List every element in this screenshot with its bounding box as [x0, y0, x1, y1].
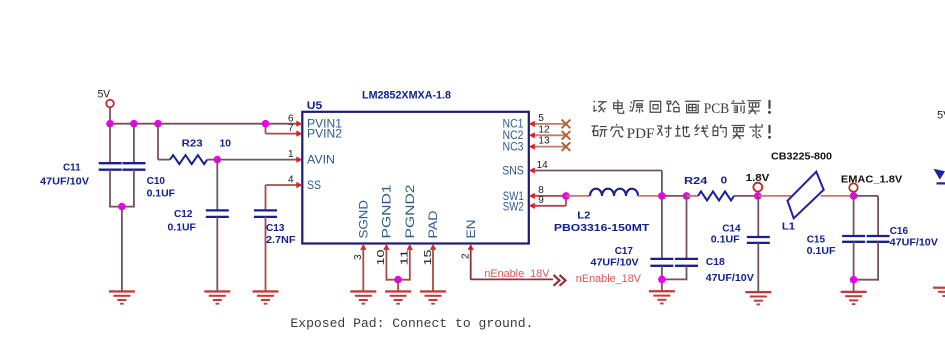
capacitor C11: [99, 163, 122, 170]
svg-text:NC1: NC1: [503, 119, 524, 131]
svg-text:14: 14: [537, 160, 549, 171]
hanzi 回: [650, 101, 661, 112]
pin arrow pin 4: [296, 182, 302, 188]
wire PGND2 drop: [409, 247, 411, 281]
wire C15 top lead: [853, 196, 855, 236]
junction C18/R24 node: [683, 192, 691, 200]
svg-text:SS: SS: [307, 180, 321, 192]
pin arrow pin 7: [296, 131, 302, 137]
svg-text:47UF/10V: 47UF/10V: [890, 236, 938, 248]
wire C13 bottom lead: [265, 217, 267, 291]
wire C18 top lead: [686, 196, 688, 258]
junction R23 / C12 / AVIN node: [214, 156, 222, 164]
wire C16 drop: [877, 196, 879, 236]
hanzi 源: [630, 101, 644, 113]
no-connect X NC2: [562, 131, 571, 140]
pin arrow pin 1: [296, 157, 302, 163]
svg-text:PGND1: PGND1: [382, 185, 394, 239]
wire C17 bottom lead: [661, 266, 663, 291]
pin arrow pin 10 PGND1: [383, 244, 389, 250]
wire EN drop: [470, 247, 472, 280]
svg-text:13: 13: [538, 136, 550, 147]
pin arrow pin 5 NC1: [529, 121, 535, 127]
wire SW2 stub: [531, 205, 566, 207]
pin arrow pin 9 SW2: [529, 203, 535, 209]
fullwidth exclamation line 1: [768, 100, 771, 114]
wire C14 bottom lead: [757, 243, 759, 292]
wire 1.8V node to L1: [758, 195, 792, 197]
ground G4 (SGND): [350, 290, 376, 304]
svg-text:EN: EN: [466, 220, 478, 239]
wire C11/C10 bottom rail: [109, 206, 135, 208]
wire SW node to L2: [566, 195, 590, 197]
svg-text:5V: 5V: [98, 88, 111, 100]
wire PGND1 drop: [385, 247, 387, 281]
svg-text:R24: R24: [684, 175, 707, 187]
svg-text:nEnable_18V: nEnable_18V: [484, 268, 550, 280]
svg-text:9: 9: [538, 195, 544, 206]
svg-text:C17: C17: [615, 245, 633, 257]
svg-text:PBO3316-150MT: PBO3316-150MT: [554, 222, 650, 234]
wire C14 top lead: [757, 196, 759, 237]
hanzi 前: [731, 100, 745, 113]
svg-text:5: 5: [538, 113, 544, 124]
svg-text:1: 1: [288, 149, 294, 160]
wire PAD to ground: [432, 247, 434, 291]
svg-text:0.1UF: 0.1UF: [807, 245, 836, 257]
wire SS wire: [266, 184, 298, 186]
wire SNS node to C18 node: [661, 195, 687, 197]
svg-text:LM2852XMXA-1.8: LM2852XMXA-1.8: [362, 89, 451, 101]
svg-text:C13: C13: [266, 222, 285, 234]
junction C11/C10 rail to ground: [118, 203, 126, 211]
svg-text:C11: C11: [63, 162, 81, 174]
wire SNS wire vertical: [661, 171, 663, 197]
svg-text:R23: R23: [182, 137, 203, 149]
wire C11 bottom lead: [109, 170, 111, 208]
capacitor C16: [867, 236, 890, 242]
svg-text:NC3: NC3: [503, 141, 524, 153]
power terminal EMAC_1.8V: [849, 183, 857, 191]
capacitor C10: [123, 163, 146, 170]
wire L2 to SNS node: [638, 195, 662, 197]
pin arrow pin 13 NC3: [529, 144, 535, 150]
junction 5V rail / C11: [106, 120, 114, 128]
svg-text:0.1UF: 0.1UF: [711, 234, 740, 246]
wire NC2 stub: [531, 134, 566, 136]
pin arrow pin 8 SW1: [529, 193, 535, 199]
ground G3 (C13): [253, 290, 279, 304]
partial off-page symbol right edge: [934, 169, 945, 185]
svg-text:Exposed Pad: Connect to ground: Exposed Pad: Connect to ground.: [290, 316, 533, 331]
hanzi 电: [614, 100, 624, 114]
wire SS riser from C13: [265, 185, 267, 210]
wire R24 to 1.8V node: [734, 195, 758, 197]
junction C15/C16 rail to ground: [850, 276, 858, 284]
wire C11 top lead: [109, 124, 111, 163]
svg-text:47UF/10V: 47UF/10V: [706, 272, 754, 284]
inductor L2: [590, 189, 638, 196]
capacitor C13: [254, 210, 277, 217]
hanzi 画: [685, 101, 700, 113]
wire R23 left lead: [158, 159, 170, 161]
off-page chevrons nEnable_18V: [554, 275, 566, 286]
svg-text:PVIN2: PVIN2: [307, 129, 342, 141]
svg-text:0.1UF: 0.1UF: [147, 187, 176, 199]
svg-text:L2: L2: [577, 210, 590, 222]
svg-text:C10: C10: [147, 175, 166, 187]
power terminal 5V: [106, 100, 114, 108]
svg-text:PCB: PCB: [704, 101, 729, 117]
wire PGND rail: [386, 279, 411, 281]
hanzi 对: [657, 125, 672, 137]
svg-text:PAD: PAD: [428, 211, 440, 239]
svg-text:0.1UF: 0.1UF: [168, 221, 197, 233]
capacitor C12: [206, 210, 229, 217]
ground G9 (C15/C16): [841, 291, 867, 305]
wire C16 bottom lead: [877, 242, 879, 281]
svg-text:PDF: PDF: [627, 126, 655, 142]
wire PGND ground stem: [397, 280, 399, 291]
pin arrow pin 11 PGND2: [407, 244, 413, 250]
svg-text:5V: 5V: [937, 110, 945, 122]
svg-text:7: 7: [288, 123, 294, 134]
junction SNS/C17 node: [658, 192, 666, 200]
svg-text:47UF/10V: 47UF/10V: [591, 257, 639, 269]
hanzi 该: [594, 101, 607, 113]
wire EN to nEnable_18V: [471, 278, 553, 280]
svg-text:12: 12: [538, 124, 550, 135]
capacitor C18: [675, 259, 698, 266]
wire C15 bottom lead: [853, 242, 855, 291]
wire PVIN2 branch horizontal: [266, 133, 298, 135]
capacitor C14: [747, 237, 770, 243]
wire PVIN2 branch vertical: [265, 124, 267, 134]
pin arrow pin 12 NC2: [529, 132, 535, 138]
capacitor C15: [842, 236, 865, 242]
wire SNS wire horizontal: [531, 170, 662, 172]
svg-text:AVIN: AVIN: [307, 154, 335, 166]
ground G8 (C14): [745, 291, 771, 305]
partial ground right edge: [933, 287, 945, 297]
resistor R24: [698, 191, 734, 200]
wire NC3 stub: [531, 146, 566, 148]
svg-text:CB3225-800: CB3225-800: [771, 150, 832, 162]
svg-text:SNS: SNS: [502, 166, 524, 178]
wire R23 right lead: [207, 159, 217, 161]
wire C10 bottom lead: [133, 170, 135, 208]
junction SW1/SW2 node: [562, 192, 570, 200]
pin arrow pin 3 SGND: [360, 244, 366, 250]
wire 5V terminal drop: [109, 107, 111, 124]
wire SW1 stub: [531, 195, 566, 197]
svg-text:PGND2: PGND2: [405, 185, 417, 239]
svg-text:SW2: SW2: [503, 202, 524, 214]
no-connect X NC1: [562, 120, 571, 129]
svg-text:L1: L1: [782, 220, 795, 232]
junction 1.8V node: [754, 192, 762, 200]
ferrite bead L1: [788, 172, 824, 219]
wire C15/C16 bottom rail: [853, 279, 879, 281]
pin arrow pin 15 PAD: [430, 244, 436, 250]
junction PGND rail to ground: [394, 276, 402, 284]
capacitor C17: [650, 259, 673, 266]
IC U5 LM2852XMXA-1.8 body: [302, 112, 529, 244]
pin arrow pin 2 EN: [468, 244, 474, 250]
junction 5V rail / R23: [154, 120, 162, 128]
ground G6 (PAD): [420, 290, 446, 304]
no-connect X NC3: [562, 142, 571, 151]
svg-text:10: 10: [220, 137, 232, 149]
junction 5V rail / C10: [130, 120, 138, 128]
svg-text:C18: C18: [706, 256, 725, 268]
svg-text:0: 0: [721, 175, 728, 187]
pin arrow pin 14 SNS: [529, 167, 535, 173]
wire ground stem C11/C10: [121, 207, 123, 291]
pin arrow pin 6: [296, 121, 302, 127]
svg-text:4: 4: [288, 175, 294, 186]
wire C12 top lead: [216, 160, 218, 211]
hanzi 求: [749, 124, 763, 138]
wire AVIN wire: [217, 159, 297, 161]
wire R23 drop from 5V rail: [157, 124, 159, 160]
svg-text:SGND: SGND: [359, 200, 371, 239]
resistor R23: [170, 155, 207, 164]
junction EMAC_1.8V node: [850, 192, 858, 200]
svg-text:nEnable_18V: nEnable_18V: [576, 273, 642, 285]
ground G7 (C17/C18): [649, 290, 675, 304]
hanzi 地: [675, 125, 689, 137]
wire C10 top lead: [133, 124, 135, 163]
hanzi 的: [713, 124, 726, 137]
wire C18 bottom lead: [686, 266, 688, 280]
hanzi 路: [667, 101, 680, 112]
hanzi 研: [592, 126, 608, 137]
ground G5 (PGND1/PGND2): [385, 290, 411, 304]
wire C17 top lead: [661, 196, 663, 258]
hanzi 线: [695, 124, 709, 136]
svg-text:2.7NF: 2.7NF: [266, 234, 296, 246]
ground G1 (C11/C10): [109, 290, 135, 304]
svg-text:NC2: NC2: [503, 130, 524, 142]
hanzi 要: [747, 101, 761, 115]
wire L1 to EMAC node: [821, 195, 854, 197]
svg-text:U5: U5: [307, 100, 322, 112]
ground G2 (C12): [204, 290, 230, 304]
wire C12 bottom lead: [216, 217, 218, 291]
fullwidth exclamation line 2: [768, 125, 771, 139]
wire 5V top rail to PVIN1: [109, 123, 297, 125]
junction 5V rail / PVIN2 branch: [262, 120, 270, 128]
hanzi 要: [732, 126, 746, 140]
junction C17/C18 rail to ground: [658, 276, 666, 284]
power terminal 1.8V: [753, 183, 762, 192]
wire EMAC node to C16: [854, 195, 879, 197]
wire SGND to ground: [362, 247, 364, 291]
wire SW2 riser: [565, 196, 567, 206]
svg-text:EMAC_1.8V: EMAC_1.8V: [841, 174, 902, 186]
wire C17/C18 bottom rail: [661, 278, 687, 280]
wire R24 left lead: [687, 195, 699, 197]
svg-text:C12: C12: [174, 208, 193, 220]
wire NC1 stub: [531, 123, 566, 125]
svg-text:47UF/10V: 47UF/10V: [40, 176, 89, 188]
hanzi 究: [610, 124, 623, 137]
